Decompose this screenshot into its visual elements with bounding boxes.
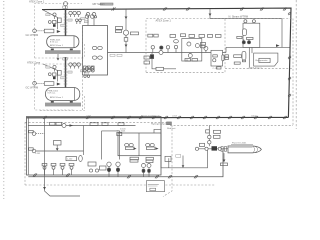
svg-text:L-102: L-102 bbox=[67, 159, 73, 161]
svg-text:Skid limit: Skid limit bbox=[167, 127, 176, 130]
svg-text:ATEX Zone 1: ATEX Zone 1 bbox=[29, 0, 45, 4]
svg-text:8 t/h sat.: 8 t/h sat. bbox=[50, 41, 58, 44]
svg-text:N. Steam WTRM: N. Steam WTRM bbox=[229, 15, 249, 19]
svg-text:ATEX Zone 1: ATEX Zone 1 bbox=[50, 96, 64, 99]
svg-text:GC-1001: GC-1001 bbox=[117, 130, 127, 132]
svg-text:ATEX Zone 1: ATEX Zone 1 bbox=[50, 44, 64, 47]
svg-text:Steam Condensate: Steam Condensate bbox=[141, 114, 161, 117]
svg-text:Flare KO-1001: Flare KO-1001 bbox=[232, 142, 247, 145]
svg-text:cond.: cond. bbox=[172, 115, 178, 117]
svg-text:GC WTRM: GC WTRM bbox=[26, 85, 39, 89]
svg-text:V-100: V-100 bbox=[120, 128, 126, 130]
svg-text:cond.: cond. bbox=[86, 115, 92, 117]
svg-text:return: return bbox=[251, 114, 257, 117]
svg-text:8 t/h sat.: 8 t/h sat. bbox=[48, 92, 56, 95]
svg-text:GC WTRM: GC WTRM bbox=[26, 33, 39, 37]
svg-text:C-101: C-101 bbox=[213, 68, 220, 70]
svg-text:Recuperator: Recuperator bbox=[256, 59, 268, 62]
svg-text:ATEX Zone: ATEX Zone bbox=[27, 60, 41, 64]
svg-text:ATEX Zone 2: ATEX Zone 2 bbox=[249, 66, 263, 69]
svg-text:MP Steam: MP Steam bbox=[93, 2, 105, 6]
svg-text:ATEX Zone 1: ATEX Zone 1 bbox=[156, 18, 172, 22]
svg-text:L-101: L-101 bbox=[35, 153, 41, 155]
